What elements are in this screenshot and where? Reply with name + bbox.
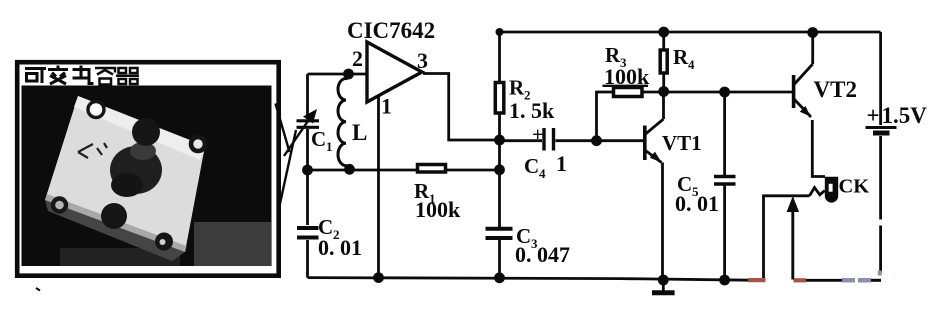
inset photo noise patches bbox=[194, 222, 271, 266]
blue-gray dashed wire bottom right bbox=[842, 278, 871, 283]
wire: C5 vertical top bbox=[723, 92, 726, 175]
svg-text:2: 2 bbox=[352, 46, 363, 71]
可 bbox=[25, 69, 46, 84]
svg-text:4: 4 bbox=[539, 166, 546, 181]
wire: middle horizontal y=170 bbox=[308, 169, 417, 172]
node: pin1 bottom bbox=[373, 272, 384, 283]
svg-text:4: 4 bbox=[688, 57, 695, 72]
wires: main schematic bbox=[308, 32, 881, 280]
wire: battery positive vertical bbox=[879, 32, 882, 125]
svg-text:VT2: VT2 bbox=[814, 77, 857, 102]
svg-text:C: C bbox=[311, 127, 326, 151]
jack CK bbox=[825, 176, 870, 203]
node: R3/R4/VT1 collector bbox=[658, 86, 669, 97]
photo: corner screw bottom-right bbox=[155, 233, 173, 251]
capacitor C3 bbox=[486, 224, 571, 267]
inset photo frame bbox=[17, 62, 279, 276]
transistor VT1 bbox=[645, 92, 702, 280]
capacitor C5 bbox=[675, 172, 736, 216]
node: C5 bottom bbox=[719, 275, 730, 286]
resistor R3 bbox=[603, 43, 651, 97]
svg-text:L: L bbox=[352, 120, 367, 145]
photo: corner ring top-left bbox=[88, 102, 104, 118]
变 bbox=[48, 66, 68, 85]
容 bbox=[95, 68, 115, 85]
node: C4/R3/VT1 base bbox=[591, 135, 602, 146]
svg-text:3: 3 bbox=[417, 48, 428, 73]
wire: jack branch vertical + horizontal bbox=[764, 196, 810, 280]
wire: battery negative vertical bbox=[879, 136, 882, 272]
callout line upper bbox=[276, 104, 290, 153]
node: C1/C2 junction bbox=[302, 165, 313, 176]
svg-text:1: 1 bbox=[556, 151, 567, 176]
inset title 可变电容器 bbox=[25, 66, 139, 85]
wire: op-amp output jog bbox=[423, 74, 500, 141]
wire: R4 vertical stubs bbox=[662, 32, 665, 92]
capacitor C1 (variable) bbox=[284, 109, 333, 156]
svg-text:0. 047: 0. 047 bbox=[515, 242, 570, 267]
svg-text:VT1: VT1 bbox=[662, 131, 702, 155]
stray mark bottom-left bbox=[36, 288, 40, 291]
svg-text:1: 1 bbox=[381, 94, 392, 119]
node: C3 bottom bbox=[494, 272, 505, 283]
callout line lower bbox=[279, 130, 297, 211]
wire: left vertical C2 to bottom bbox=[306, 240, 309, 278]
svg-text:R: R bbox=[673, 45, 689, 69]
photo: corner screw left bbox=[53, 199, 66, 212]
wire: jack zigzag contact bbox=[810, 188, 825, 196]
node: VT2 collector top bbox=[807, 27, 818, 38]
wire: C5 vertical bottom bbox=[723, 185, 726, 280]
wire: top rail bbox=[500, 31, 881, 34]
photo: top hole bbox=[132, 118, 160, 146]
capacitor C4 (electrolytic) bbox=[524, 124, 567, 181]
wire: C4 left bbox=[500, 139, 543, 142]
svg-text:+: + bbox=[532, 124, 543, 146]
transistor VT2 bbox=[794, 33, 857, 118]
photo: bottom hole bbox=[101, 203, 127, 229]
svg-text:+: + bbox=[867, 103, 880, 128]
resistor R4 bbox=[660, 45, 695, 73]
node: C5 top bbox=[719, 87, 730, 98]
svg-text:C: C bbox=[524, 154, 539, 178]
blue-gray dash on battery line bbox=[878, 271, 882, 276]
wire: top-left horizontal (C1 top to op-amp in) bbox=[308, 73, 368, 76]
photo: rotor blob bbox=[110, 146, 162, 194]
wire: collector bus VT1 to VT2 base bbox=[664, 91, 794, 94]
svg-text:R: R bbox=[509, 76, 525, 100]
wire: op-amp pin1 vertical bbox=[377, 95, 380, 278]
wire: R2 vertical bottom to C3 bbox=[498, 115, 501, 228]
inset photo: variable capacitor body bbox=[45, 96, 205, 252]
wire: R3 left leg bbox=[597, 92, 613, 141]
inductor L bbox=[338, 74, 367, 170]
node: R2 top bbox=[496, 28, 504, 36]
wire: bottom rail black piece right of arrow bbox=[806, 279, 842, 282]
photo: arrow marking bbox=[78, 143, 107, 158]
wire: bottom rail bbox=[308, 278, 751, 281]
wire: R3 right to R4 bottom bbox=[644, 91, 664, 94]
photo: corner screw right bbox=[191, 137, 205, 151]
node: VT1 emitter / ground bbox=[658, 275, 669, 286]
器 bbox=[116, 68, 139, 84]
red wire dash at arrow base bbox=[794, 278, 807, 282]
capacitor C2 bbox=[297, 215, 362, 260]
wire: VT2 emitter to jack top bbox=[812, 120, 825, 177]
svg-text:0. 01: 0. 01 bbox=[675, 191, 719, 216]
svg-text:CIC7642: CIC7642 bbox=[347, 18, 435, 43]
node: L top / pin2 bbox=[343, 69, 354, 80]
node: R4 top bbox=[658, 27, 669, 38]
svg-text:1: 1 bbox=[326, 139, 333, 154]
inset photo background bbox=[22, 86, 272, 267]
resistor R2 bbox=[495, 76, 555, 124]
node: R2 bottom / opamp out bbox=[494, 135, 505, 146]
svg-text:1.5V: 1.5V bbox=[882, 103, 928, 128]
wire: middle horizontal right of R1 bbox=[447, 169, 500, 172]
ground bbox=[652, 280, 675, 293]
svg-text:0. 01: 0. 01 bbox=[318, 235, 362, 260]
wire: C3 to bottom rail bbox=[498, 240, 501, 278]
battery BT 1.5V bbox=[866, 103, 928, 133]
wire: left vertical above C1 bbox=[306, 74, 309, 119]
red wire dash left bbox=[748, 278, 765, 282]
node: R1 right bbox=[494, 164, 505, 175]
wire: R2 vertical top bbox=[498, 32, 501, 81]
svg-text:100k: 100k bbox=[415, 197, 461, 222]
wire: left vertical C1 to C2 bbox=[306, 129, 309, 225]
photo: shadow under lower-left edge bbox=[45, 200, 185, 261]
电 bbox=[73, 66, 94, 84]
svg-text:CK: CK bbox=[839, 176, 870, 198]
node: L bottom bbox=[344, 164, 355, 175]
op-amp U1 CIC7642 bbox=[347, 18, 435, 119]
svg-text:1. 5k: 1. 5k bbox=[509, 98, 555, 123]
annotation arrow bbox=[787, 196, 800, 280]
resistor R1 bbox=[414, 165, 461, 223]
wire: C4 right to VT1 base bbox=[556, 139, 645, 142]
